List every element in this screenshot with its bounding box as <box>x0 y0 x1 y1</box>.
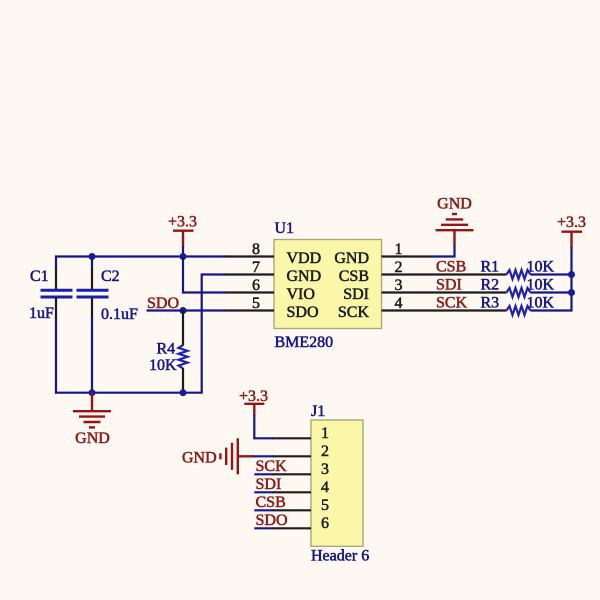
svg-text:SDI: SDI <box>436 277 462 294</box>
resistor R2 <box>507 288 572 297</box>
svg-text:1uF: 1uF <box>29 305 54 322</box>
wire: U1 pin 7 (GND) down to ground rail <box>202 275 226 393</box>
svg-text:GND: GND <box>437 196 472 213</box>
svg-text:GND: GND <box>334 250 369 267</box>
U1 pin 6 VIO <box>225 277 315 303</box>
svg-text:SDO: SDO <box>287 304 319 321</box>
svg-text:2: 2 <box>395 259 403 276</box>
wire: header +3.3 down to J1 pin 1 <box>254 415 273 438</box>
wire: U1 pin 1 up to ground symbol <box>432 244 455 257</box>
wire: +3.3 stem to top rail <box>182 246 184 257</box>
junction: C2 on top rail <box>89 253 96 260</box>
U1 pin 4 SCK (right) <box>338 295 507 321</box>
svg-text:U1: U1 <box>275 220 295 237</box>
op IC U1 BME280 body <box>274 240 382 329</box>
svg-text:R2: R2 <box>481 277 500 294</box>
svg-text:3: 3 <box>395 277 403 294</box>
junction: C2/ground symbol on ground rail <box>89 389 96 396</box>
wire: SCK to J1 pin 3 <box>254 473 273 475</box>
svg-text:8: 8 <box>252 241 260 258</box>
svg-text:Header 6: Header 6 <box>311 548 369 565</box>
svg-text:0.1uF: 0.1uF <box>101 306 138 323</box>
svg-text:4: 4 <box>395 295 403 312</box>
svg-text:J1: J1 <box>311 403 325 420</box>
svg-text:VIO: VIO <box>287 286 315 303</box>
svg-text:SDI: SDI <box>343 286 369 303</box>
svg-text:1: 1 <box>321 425 329 442</box>
wire: SDI to J1 pin 4 <box>254 491 273 493</box>
svg-text:R4: R4 <box>157 341 176 358</box>
ground symbol (header, sideways) <box>220 438 254 474</box>
J1 pin 5 <box>273 497 330 514</box>
svg-text:SDI: SDI <box>256 476 282 493</box>
power symbol +3.3 (top, over C network) <box>173 231 194 247</box>
svg-text:6: 6 <box>252 277 260 294</box>
J1 pin 3 <box>273 461 330 478</box>
capacitor C2 <box>77 257 109 393</box>
wire: top rail (VDD net) from C1 to +3.3 junction <box>55 255 184 257</box>
junction: R1 on right rail <box>568 271 575 278</box>
connector J1 Header 6 body <box>311 420 363 546</box>
svg-text:1: 1 <box>395 241 403 258</box>
power symbol +3.3 (header) <box>244 404 264 416</box>
svg-text:GND: GND <box>287 268 322 285</box>
svg-text:+3.3: +3.3 <box>168 214 197 231</box>
svg-text:CSB: CSB <box>256 494 286 511</box>
svg-text:7: 7 <box>252 259 260 276</box>
svg-text:5: 5 <box>321 497 329 514</box>
J1 pin 4 <box>273 479 330 496</box>
U1 pin 8 VDD <box>225 241 322 267</box>
svg-text:C1: C1 <box>30 268 49 285</box>
junction: R4 top on SDO net <box>180 307 187 314</box>
svg-text:CSB: CSB <box>339 268 369 285</box>
wire: +3.3 drop to VIO (U1 pin 6) <box>183 257 226 293</box>
U1 pin 2 CSB (right) <box>339 259 507 285</box>
svg-text:SCK: SCK <box>256 458 288 475</box>
wire: SDO net to U1 pin 5 <box>147 309 226 311</box>
svg-text:+3.3: +3.3 <box>239 388 268 405</box>
resistor R4 <box>179 311 188 393</box>
svg-text:10K: 10K <box>527 259 555 276</box>
power symbol +3.3 (right) <box>562 232 583 248</box>
wire: CSB to J1 pin 5 <box>254 509 273 511</box>
svg-text:+3.3: +3.3 <box>557 214 586 231</box>
svg-text:SCK: SCK <box>436 295 468 312</box>
svg-text:10K: 10K <box>149 357 177 374</box>
wire: right +3.3 rail down to R3 <box>570 247 572 312</box>
svg-text:CSB: CSB <box>436 259 466 276</box>
svg-text:VDD: VDD <box>287 250 322 267</box>
J1 pin 2 <box>273 443 330 460</box>
capacitor C1 <box>41 256 73 394</box>
junction: R4 bottom on ground rail <box>180 389 187 396</box>
svg-text:4: 4 <box>321 479 329 496</box>
ground symbol (top right, inverted) <box>436 214 474 245</box>
svg-text:3: 3 <box>321 461 329 478</box>
svg-text:GND: GND <box>75 430 110 447</box>
svg-text:R1: R1 <box>481 259 500 276</box>
U1 pin 7 GND <box>225 259 322 285</box>
svg-text:BME280: BME280 <box>275 334 334 351</box>
svg-text:5: 5 <box>252 295 260 312</box>
svg-text:6: 6 <box>321 515 329 532</box>
svg-text:2: 2 <box>321 443 329 460</box>
wire: SDO to J1 pin 6 <box>254 527 273 529</box>
junction: +3.3 on top rail <box>180 253 187 260</box>
wire: VDD net to U1 pin 8 <box>183 255 226 257</box>
svg-text:10K: 10K <box>527 295 555 312</box>
ground symbol (bottom left) <box>73 393 111 428</box>
J1 pin 1 <box>273 425 330 442</box>
resistor R3 <box>507 306 573 315</box>
svg-text:C2: C2 <box>101 268 120 285</box>
svg-text:SCK: SCK <box>338 304 370 321</box>
wire: ground to J1 pin 2 <box>253 455 274 457</box>
svg-text:GND: GND <box>182 450 217 467</box>
junction: R2 on right rail <box>568 289 575 296</box>
wire: bottom ground rail <box>55 392 203 394</box>
svg-text:SDO: SDO <box>256 512 288 529</box>
svg-text:R3: R3 <box>481 295 500 312</box>
U1 pin 1 GND (right) <box>334 241 431 267</box>
svg-text:10K: 10K <box>527 277 555 294</box>
U1 pin 3 SDI (right) <box>343 277 506 303</box>
resistor R1 <box>507 270 572 279</box>
J1 pin 6 <box>273 515 330 532</box>
U1 pin 5 SDO <box>225 295 319 321</box>
